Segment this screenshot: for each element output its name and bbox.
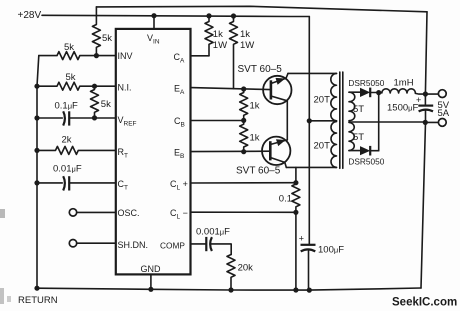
svg-text:1k: 1k — [250, 101, 260, 112]
node left rail CT — [34, 180, 39, 185]
wire EA to base Q1 — [191, 88, 271, 90]
wire CB — [191, 120, 244, 122]
node N.I. divider — [92, 84, 97, 89]
wire +28V rail — [42, 15, 309, 16]
resistor 1k (base A) — [240, 89, 248, 120]
capacitor 100uF — [301, 244, 316, 246]
capacitor 0.01uF (CT row) — [37, 182, 62, 184]
svg-text:5k: 5k — [66, 72, 76, 83]
wire node to 0.1 — [295, 167, 297, 182]
wire Q1 emitter to transformer top — [288, 72, 337, 74]
svg-text:5T: 5T — [353, 132, 364, 143]
node left rail N.I. — [34, 84, 39, 89]
svg-text:N.I.: N.I. — [118, 83, 132, 93]
node CL- — [293, 210, 298, 215]
svg-text:5k: 5k — [101, 99, 111, 110]
node return GND — [148, 287, 153, 292]
svg-text:OSC.: OSC. — [118, 208, 140, 218]
svg-text:DSR5050: DSR5050 — [348, 78, 384, 88]
transformer core — [340, 72, 343, 168]
svg-text:20T: 20T — [314, 141, 331, 152]
svg-text:1mH: 1mH — [394, 78, 414, 89]
wire D2 to D1 junction — [378, 93, 380, 151]
svg-text:2k: 2k — [62, 135, 72, 146]
svg-text:SeekIC.com: SeekIC.com — [392, 297, 457, 309]
wire center tap — [309, 120, 336, 122]
svg-text:0.001μF: 0.001μF — [196, 227, 230, 238]
capacitor 0.001uF (COMP) — [191, 243, 207, 245]
wire secondary center tap to output return — [349, 121, 425, 123]
resistor 5k (top, feedback to INV) — [92, 7, 100, 56]
svg-text:+28V: +28V — [18, 10, 42, 21]
svg-text:5A: 5A — [438, 108, 450, 119]
svg-text:0.01μF: 0.01μF — [53, 163, 82, 174]
node +28V at R 1k A — [206, 13, 211, 18]
scan speck — [0, 288, 4, 304]
svg-text:INV: INV — [118, 51, 133, 61]
node D1 D2 junction — [376, 90, 381, 95]
wire secondary top to diode — [349, 91, 360, 93]
node CL+ — [293, 180, 298, 185]
wire VIN — [153, 16, 155, 29]
resistor 1k 1W (A) — [205, 16, 213, 56]
terminal SH.DN — [69, 240, 76, 247]
node return 100uF — [307, 288, 312, 293]
node +28V at R 1k B — [231, 13, 236, 18]
svg-text:SVT 60–5: SVT 60–5 — [238, 64, 283, 75]
node INV — [94, 53, 99, 58]
wire right rail upper (5V feedback) — [425, 12, 427, 106]
capacitor 0.1uF (VREF row) — [37, 117, 62, 119]
node base Q1 — [241, 86, 246, 91]
wire 0.1 to return — [295, 212, 297, 290]
transformer T1 primary 20T top — [331, 73, 337, 120]
wire secondary bottom to diode — [349, 150, 360, 152]
transistor Q2 SVT 60-5 — [262, 137, 290, 165]
wire CL+ — [191, 182, 296, 184]
node return 20k — [228, 287, 233, 292]
resistor 20k — [227, 255, 235, 291]
transformer secondary 5T top — [349, 92, 355, 121]
svg-text:1k: 1k — [240, 29, 250, 40]
svg-text:5k: 5k — [64, 42, 74, 53]
wire CA — [191, 55, 209, 57]
transformer T1 primary 20T bottom — [331, 122, 336, 168]
svg-text:DSR5050: DSR5050 — [348, 157, 384, 167]
transformer secondary 5T bottom — [349, 122, 354, 150]
wire Q1 collector to Q2 emitter — [286, 101, 288, 140]
svg-text:1W: 1W — [213, 40, 227, 51]
terminal 5V output — [438, 90, 446, 98]
svg-text:0.1: 0.1 — [279, 193, 292, 204]
svg-text:5k: 5k — [102, 33, 112, 44]
svg-text:RETURN: RETURN — [18, 295, 58, 306]
svg-text:+: + — [299, 233, 304, 243]
svg-text:0.1μF: 0.1μF — [55, 100, 79, 111]
node +28V at VIN — [151, 13, 156, 18]
svg-text:SH.DN.: SH.DN. — [118, 240, 149, 250]
svg-text:1k: 1k — [250, 133, 260, 144]
op-amp U1 regulator IC box — [116, 29, 191, 275]
resistor 5k (N.I. row horizontal) — [37, 82, 116, 90]
resistor 2k (RT row) — [37, 146, 116, 154]
wire +28V feed to center tap and 100uF — [308, 17, 310, 245]
wire GND — [150, 274, 152, 289]
terminal OSC — [69, 209, 76, 216]
svg-text:1k: 1k — [213, 29, 223, 40]
svg-text:1W: 1W — [240, 40, 254, 51]
node output 5V — [423, 91, 428, 96]
resistor 1k 1W (B) — [230, 16, 238, 89]
svg-text:COMP: COMP — [160, 241, 185, 251]
capacitor 1500uF — [418, 104, 433, 106]
resistor 0.1 current sense — [292, 183, 300, 213]
wire Q2 collector to transformer bottom — [286, 166, 336, 168]
inductor L1 1mH — [382, 89, 416, 93]
node VREF divider — [92, 115, 97, 120]
diode D1 DSR5050 — [360, 88, 370, 97]
node base Q2 — [241, 149, 246, 154]
resistor 5k (vertical N.I. to VREF) — [91, 86, 99, 118]
scan speck — [7, 296, 11, 302]
svg-text:20T: 20T — [314, 95, 331, 106]
svg-text:20k: 20k — [238, 263, 254, 274]
wire EB to base Q2 — [191, 150, 270, 152]
node output return — [423, 120, 428, 125]
resistor 5k (INV row horizontal) — [39, 52, 116, 60]
resistor 1k (base B) — [240, 120, 248, 151]
wire left rail — [37, 56, 39, 289]
svg-text:SVT 60–5: SVT 60–5 — [236, 166, 281, 177]
wire RETURN rail — [37, 288, 421, 290]
diode D2 DSR5050 — [360, 146, 370, 155]
svg-text:100μF: 100μF — [318, 244, 344, 255]
scan speck — [0, 209, 5, 218]
wire right rail lower (return) — [421, 110, 426, 288]
svg-text:5T: 5T — [353, 104, 364, 115]
node return 0.1 — [293, 287, 298, 292]
node left rail RT — [34, 148, 39, 153]
node left rail VREF — [34, 115, 39, 120]
svg-text:1500μF: 1500μF — [387, 103, 418, 114]
svg-text:GND: GND — [141, 264, 162, 274]
terminal return output — [425, 121, 438, 123]
wire CL- — [191, 211, 296, 213]
wire top feedback rail — [96, 6, 427, 12]
node return left rail — [34, 286, 39, 291]
node center tap — [307, 118, 312, 123]
node CB junction — [241, 118, 246, 123]
